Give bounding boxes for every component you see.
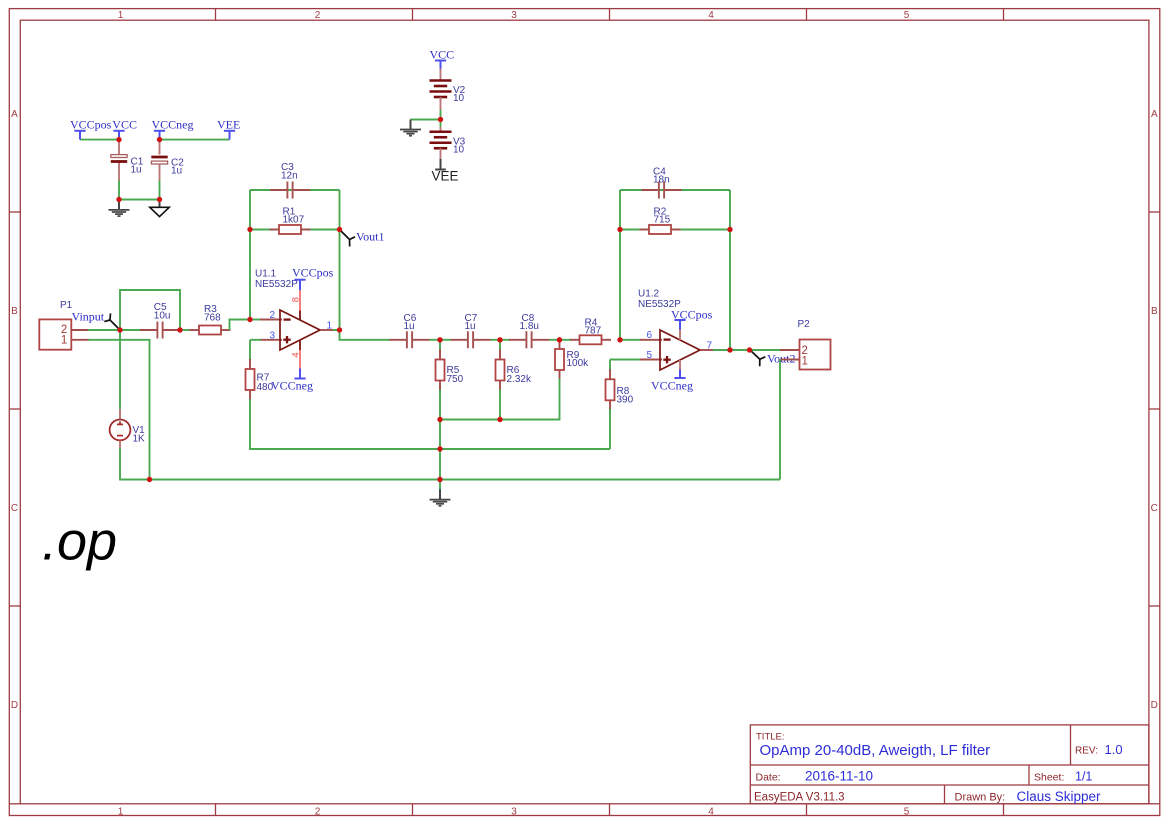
svg-text:1: 1 bbox=[61, 334, 67, 346]
svg-text:1: 1 bbox=[118, 10, 124, 21]
svg-text:Vinput: Vinput bbox=[72, 309, 105, 323]
svg-text:10: 10 bbox=[453, 145, 465, 156]
svg-text:1k07: 1k07 bbox=[283, 215, 305, 226]
svg-text:Claus Skipper: Claus Skipper bbox=[1017, 789, 1102, 804]
svg-text:5: 5 bbox=[904, 807, 910, 818]
svg-text:.op: .op bbox=[42, 512, 117, 572]
svg-text:3: 3 bbox=[269, 330, 275, 341]
svg-text:3: 3 bbox=[511, 807, 517, 818]
svg-text:NE5532P: NE5532P bbox=[255, 279, 298, 290]
svg-text:D: D bbox=[11, 700, 18, 711]
svg-text:VCCneg: VCCneg bbox=[651, 379, 693, 393]
svg-text:1u: 1u bbox=[404, 321, 415, 332]
svg-text:TITLE:: TITLE: bbox=[756, 732, 785, 743]
svg-text:1.0: 1.0 bbox=[1105, 742, 1123, 757]
svg-text:VCCneg: VCCneg bbox=[271, 379, 313, 393]
svg-text:1: 1 bbox=[802, 356, 808, 368]
svg-text:5: 5 bbox=[646, 350, 652, 361]
svg-text:P2: P2 bbox=[798, 319, 811, 330]
svg-text:750: 750 bbox=[447, 374, 464, 385]
svg-text:1/1: 1/1 bbox=[1075, 769, 1092, 783]
svg-text:Drawn By:: Drawn By: bbox=[955, 792, 1006, 804]
svg-text:U1.2: U1.2 bbox=[638, 289, 660, 300]
svg-text:10u: 10u bbox=[154, 311, 171, 322]
svg-text:1u: 1u bbox=[171, 166, 182, 177]
svg-text:VCCneg: VCCneg bbox=[152, 117, 194, 131]
svg-text:4: 4 bbox=[291, 352, 302, 357]
svg-text:A: A bbox=[11, 109, 18, 120]
svg-text:B: B bbox=[11, 306, 18, 317]
svg-text:6: 6 bbox=[646, 330, 652, 341]
svg-text:768: 768 bbox=[204, 312, 221, 323]
svg-text:480: 480 bbox=[257, 382, 274, 393]
svg-text:2.32k: 2.32k bbox=[507, 374, 532, 385]
svg-text:4: 4 bbox=[708, 10, 714, 21]
svg-text:787: 787 bbox=[585, 326, 602, 337]
svg-text:1.8u: 1.8u bbox=[520, 321, 539, 332]
svg-text:5: 5 bbox=[904, 10, 910, 21]
svg-text:C: C bbox=[1151, 503, 1158, 514]
svg-text:390: 390 bbox=[617, 395, 634, 406]
svg-text:Date:: Date: bbox=[756, 771, 781, 783]
svg-text:VCC: VCC bbox=[430, 47, 455, 61]
svg-text:715: 715 bbox=[654, 215, 671, 226]
svg-text:OpAmp 20-40dB, Aweigth, LF fil: OpAmp 20-40dB, Aweigth, LF filter bbox=[760, 742, 991, 759]
svg-text:4: 4 bbox=[708, 807, 714, 818]
svg-text:8: 8 bbox=[291, 297, 302, 302]
svg-text:VCC: VCC bbox=[112, 117, 137, 131]
svg-text:Vout1: Vout1 bbox=[356, 230, 384, 244]
svg-text:Sheet:: Sheet: bbox=[1034, 771, 1064, 783]
svg-text:18n: 18n bbox=[653, 175, 670, 186]
svg-text:1K: 1K bbox=[133, 433, 146, 444]
svg-text:VCCpos: VCCpos bbox=[671, 308, 713, 322]
svg-text:VCCpos: VCCpos bbox=[292, 266, 334, 280]
svg-text:12n: 12n bbox=[281, 170, 298, 181]
svg-text:EasyEDA V3.11.3: EasyEDA V3.11.3 bbox=[754, 792, 845, 804]
svg-text:U1.1: U1.1 bbox=[255, 268, 277, 279]
svg-text:100k: 100k bbox=[567, 358, 590, 369]
svg-text:2016-11-10: 2016-11-10 bbox=[805, 768, 873, 783]
svg-text:10: 10 bbox=[453, 93, 465, 104]
svg-text:VCCpos: VCCpos bbox=[70, 117, 112, 131]
svg-text:1u: 1u bbox=[131, 165, 142, 176]
svg-text:VEE: VEE bbox=[432, 168, 459, 183]
svg-text:B: B bbox=[1151, 306, 1158, 317]
svg-text:1u: 1u bbox=[465, 321, 476, 332]
svg-text:C: C bbox=[11, 503, 18, 514]
svg-text:VEE: VEE bbox=[217, 117, 240, 131]
svg-text:2: 2 bbox=[315, 807, 321, 818]
svg-text:1: 1 bbox=[118, 807, 124, 818]
svg-text:REV:: REV: bbox=[1075, 746, 1098, 757]
svg-text:3: 3 bbox=[511, 10, 517, 21]
svg-text:2: 2 bbox=[315, 10, 321, 21]
svg-text:2: 2 bbox=[269, 310, 275, 321]
svg-text:A: A bbox=[1151, 109, 1158, 120]
svg-text:D: D bbox=[1151, 700, 1158, 711]
